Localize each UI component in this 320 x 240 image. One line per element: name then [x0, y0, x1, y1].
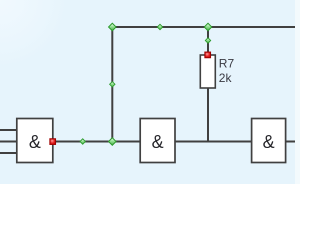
wire left vertical (112,27 down to bus): [111, 27, 113, 142]
pin marker red square: R7 top pin: [205, 52, 211, 58]
node handle large: junction 208,27: [204, 23, 211, 30]
svg-text:&: &: [152, 132, 164, 152]
node handle small: midpoint 208,40.5: [205, 38, 210, 43]
window edge band right: [295, 0, 300, 184]
pin marker red square: gate1 output: [50, 139, 56, 145]
AND gate U1: [17, 119, 53, 163]
wire gate1 input 3: [0, 152, 17, 154]
wire top horizontal (node 112,27 to right edge): [112, 26, 295, 28]
node handle large: junction 112,141.5: [109, 138, 116, 145]
node handle small: midpoint 160,27: [157, 24, 162, 29]
wire gate3 output: [286, 141, 296, 143]
background canvas: [0, 0, 300, 184]
svg-text:&: &: [263, 132, 275, 152]
svg-text:R7: R7: [219, 57, 235, 71]
wire gate1 input 1: [0, 129, 17, 131]
node handle large: corner 112,27: [109, 23, 116, 30]
AND gate U2: [140, 119, 175, 163]
svg-text:&: &: [29, 132, 41, 152]
wire resistor top stub (208,27 to R7 pin): [207, 27, 209, 55]
node handle small: midpoint 82.7,141.5: [80, 139, 85, 144]
svg-text:2k: 2k: [219, 71, 233, 85]
wire gate2 output to gate3 input: [175, 141, 252, 143]
wire gate1 input 2: [0, 141, 17, 143]
wire gate1 output to gate2 input: [53, 141, 141, 143]
label R7 value 2k: [219, 57, 235, 85]
resistor R7 body: [200, 55, 215, 88]
AND gate U3: [252, 119, 286, 163]
wire resistor bottom to bus: [207, 88, 209, 142]
node handle small: midpoint 112,84.3: [110, 82, 115, 87]
